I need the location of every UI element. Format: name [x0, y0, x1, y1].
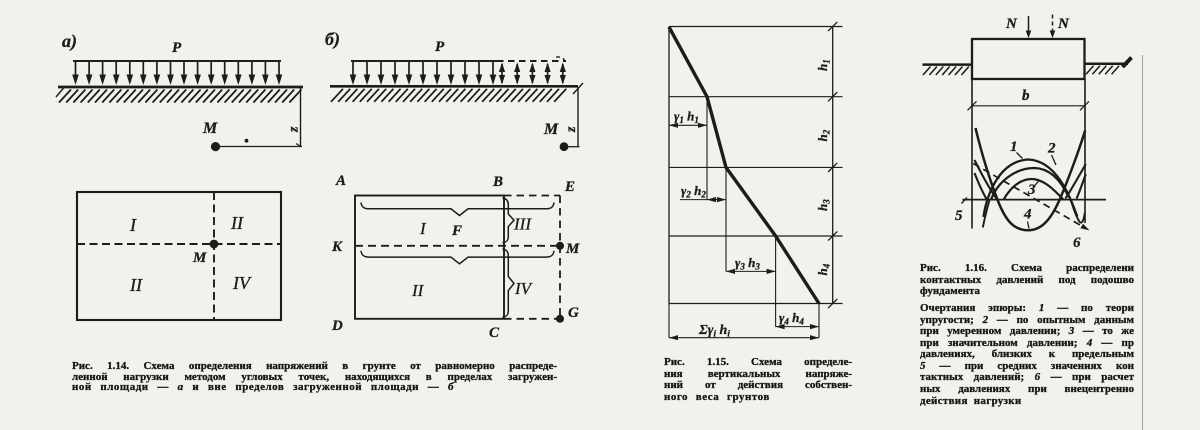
- svg-text:6: 6: [1073, 235, 1081, 251]
- fig a: ground line: [58, 86, 303, 89]
- fig b: ground hatching: [331, 89, 566, 102]
- fig115: stress polyline: [669, 27, 819, 304]
- fig116: curve 5 edge strokes: [975, 160, 998, 200]
- fig116: curve 2 middle dome: [991, 168, 1069, 200]
- svg-text:Σγi hi: Σγi hi: [698, 323, 730, 339]
- svg-text:F: F: [451, 223, 462, 239]
- svg-text:2: 2: [1047, 141, 1056, 157]
- fig116: baseline: [963, 199, 1107, 201]
- plan b: vertical brace IV: [503, 249, 515, 317]
- svg-text:γ1 h1: γ1 h1: [674, 109, 699, 126]
- plan a: dashed vertical: [213, 192, 215, 320]
- fig116: curve 4 deep U with edge spikes: [976, 128, 1086, 230]
- svg-text:N: N: [1005, 16, 1018, 32]
- plan b: solid rectangle ABCD: [355, 196, 504, 319]
- fig115: right edge dimension line: [832, 27, 834, 304]
- fig116: curve 1 outer dome: [984, 160, 1078, 218]
- fig115: dim gamma1 h1: [669, 124, 707, 126]
- fig a: point M: [211, 142, 220, 151]
- svg-text:h2: h2: [815, 129, 832, 141]
- svg-text:G: G: [568, 305, 579, 321]
- fig a: ground hatching: [59, 90, 301, 103]
- svg-text:I: I: [419, 219, 427, 238]
- plan b: lower horizontal brace: [361, 251, 554, 264]
- svg-text:M: M: [202, 120, 218, 137]
- svg-text:C: C: [489, 325, 500, 341]
- fig b: dashed load line extension: [497, 60, 566, 62]
- svg-text:γ3 h3: γ3 h3: [735, 255, 760, 272]
- plan a: point M: [210, 240, 219, 249]
- svg-text:II: II: [129, 275, 143, 295]
- svg-text:4: 4: [1023, 207, 1032, 223]
- fig116: b dimension: [972, 105, 1085, 107]
- plan a: rectangle: [77, 192, 281, 320]
- fig a: depth line z: [300, 87, 302, 147]
- svg-text:h4: h4: [815, 263, 832, 275]
- svg-text:III: III: [513, 215, 532, 234]
- svg-text:а): а): [62, 31, 77, 52]
- svg-text:h1: h1: [815, 59, 832, 71]
- svg-text:h3: h3: [815, 199, 832, 211]
- fig116: ground line right: [1085, 63, 1129, 66]
- fig116: foundation block: [972, 39, 1085, 79]
- plan b: vertical brace III: [503, 198, 515, 243]
- svg-text:IV: IV: [232, 273, 252, 293]
- plan b: point G: [556, 315, 564, 323]
- svg-text:P: P: [435, 39, 445, 55]
- svg-text:I: I: [129, 215, 137, 235]
- fig116: below-baseline hooks: [983, 200, 990, 228]
- fig115: layer boundary lines: [669, 26, 843, 28]
- fig b: solid load line: [351, 60, 497, 62]
- svg-text:M: M: [543, 121, 559, 138]
- svg-text:A: A: [335, 173, 346, 189]
- plan b: top horizontal brace: [361, 203, 554, 216]
- caption fig 1.14: [72, 361, 557, 393]
- svg-text:γ2 h2: γ2 h2: [681, 183, 706, 200]
- svg-text:1: 1: [1010, 139, 1018, 155]
- fig116: dashed line 6: [973, 164, 1086, 229]
- fig b: ground line: [330, 85, 578, 88]
- plan b: dashed line K-M: [355, 245, 560, 247]
- plan b: dashed extension lines: [504, 195, 560, 197]
- svg-text:3: 3: [1027, 182, 1036, 198]
- fig b: down load arrows: [352, 62, 354, 77]
- svg-text:M: M: [192, 250, 207, 266]
- fig115: vertical ordinate lines: [706, 97, 708, 200]
- svg-text:B: B: [492, 174, 503, 190]
- page edge faint line: [1142, 55, 1144, 430]
- fig115: dim sum: [669, 337, 819, 339]
- fig a: distributed load top line: [73, 60, 281, 62]
- svg-text:γ4 h4: γ4 h4: [779, 310, 804, 327]
- fig115: dim gamma2 h2: [680, 199, 726, 201]
- svg-text:II: II: [230, 213, 244, 233]
- fig b: point M: [560, 142, 569, 151]
- caption fig 1.15: [664, 357, 852, 404]
- fig116: ground line left: [923, 63, 973, 66]
- svg-text:II: II: [411, 281, 425, 300]
- fig116: curve 3 inner dome: [1004, 179, 1064, 200]
- svg-text:P: P: [172, 40, 182, 56]
- fig b: depth line z: [577, 88, 579, 147]
- svg-text:б): б): [325, 29, 340, 50]
- fig b: double arrows on fictitious load: [501, 64, 503, 83]
- plan b: point M: [556, 242, 564, 250]
- fig115: dim gamma4 h4: [776, 326, 819, 328]
- svg-text:5: 5: [955, 208, 963, 224]
- fig116: N force arrows: [1028, 16, 1030, 32]
- svg-text:z: z: [287, 126, 302, 133]
- fig115: dim gamma3 h3: [726, 270, 776, 272]
- plan a: dashed horizontal: [77, 243, 281, 245]
- fig115: left edge: [668, 27, 670, 304]
- fig115: dimension slashes: [828, 22, 837, 31]
- svg-text:N: N: [1057, 16, 1070, 32]
- svg-text:K: K: [331, 239, 343, 255]
- svg-text:M: M: [565, 241, 580, 257]
- svg-text:z: z: [564, 126, 579, 133]
- svg-text:b: b: [1022, 88, 1030, 104]
- fig a: load arrows: [75, 62, 77, 77]
- svg-text:IV: IV: [514, 279, 534, 298]
- svg-text:D: D: [331, 318, 343, 334]
- caption fig 1.16: [920, 263, 1134, 407]
- svg-text:E: E: [564, 179, 575, 195]
- fig116: side verticals: [971, 79, 973, 229]
